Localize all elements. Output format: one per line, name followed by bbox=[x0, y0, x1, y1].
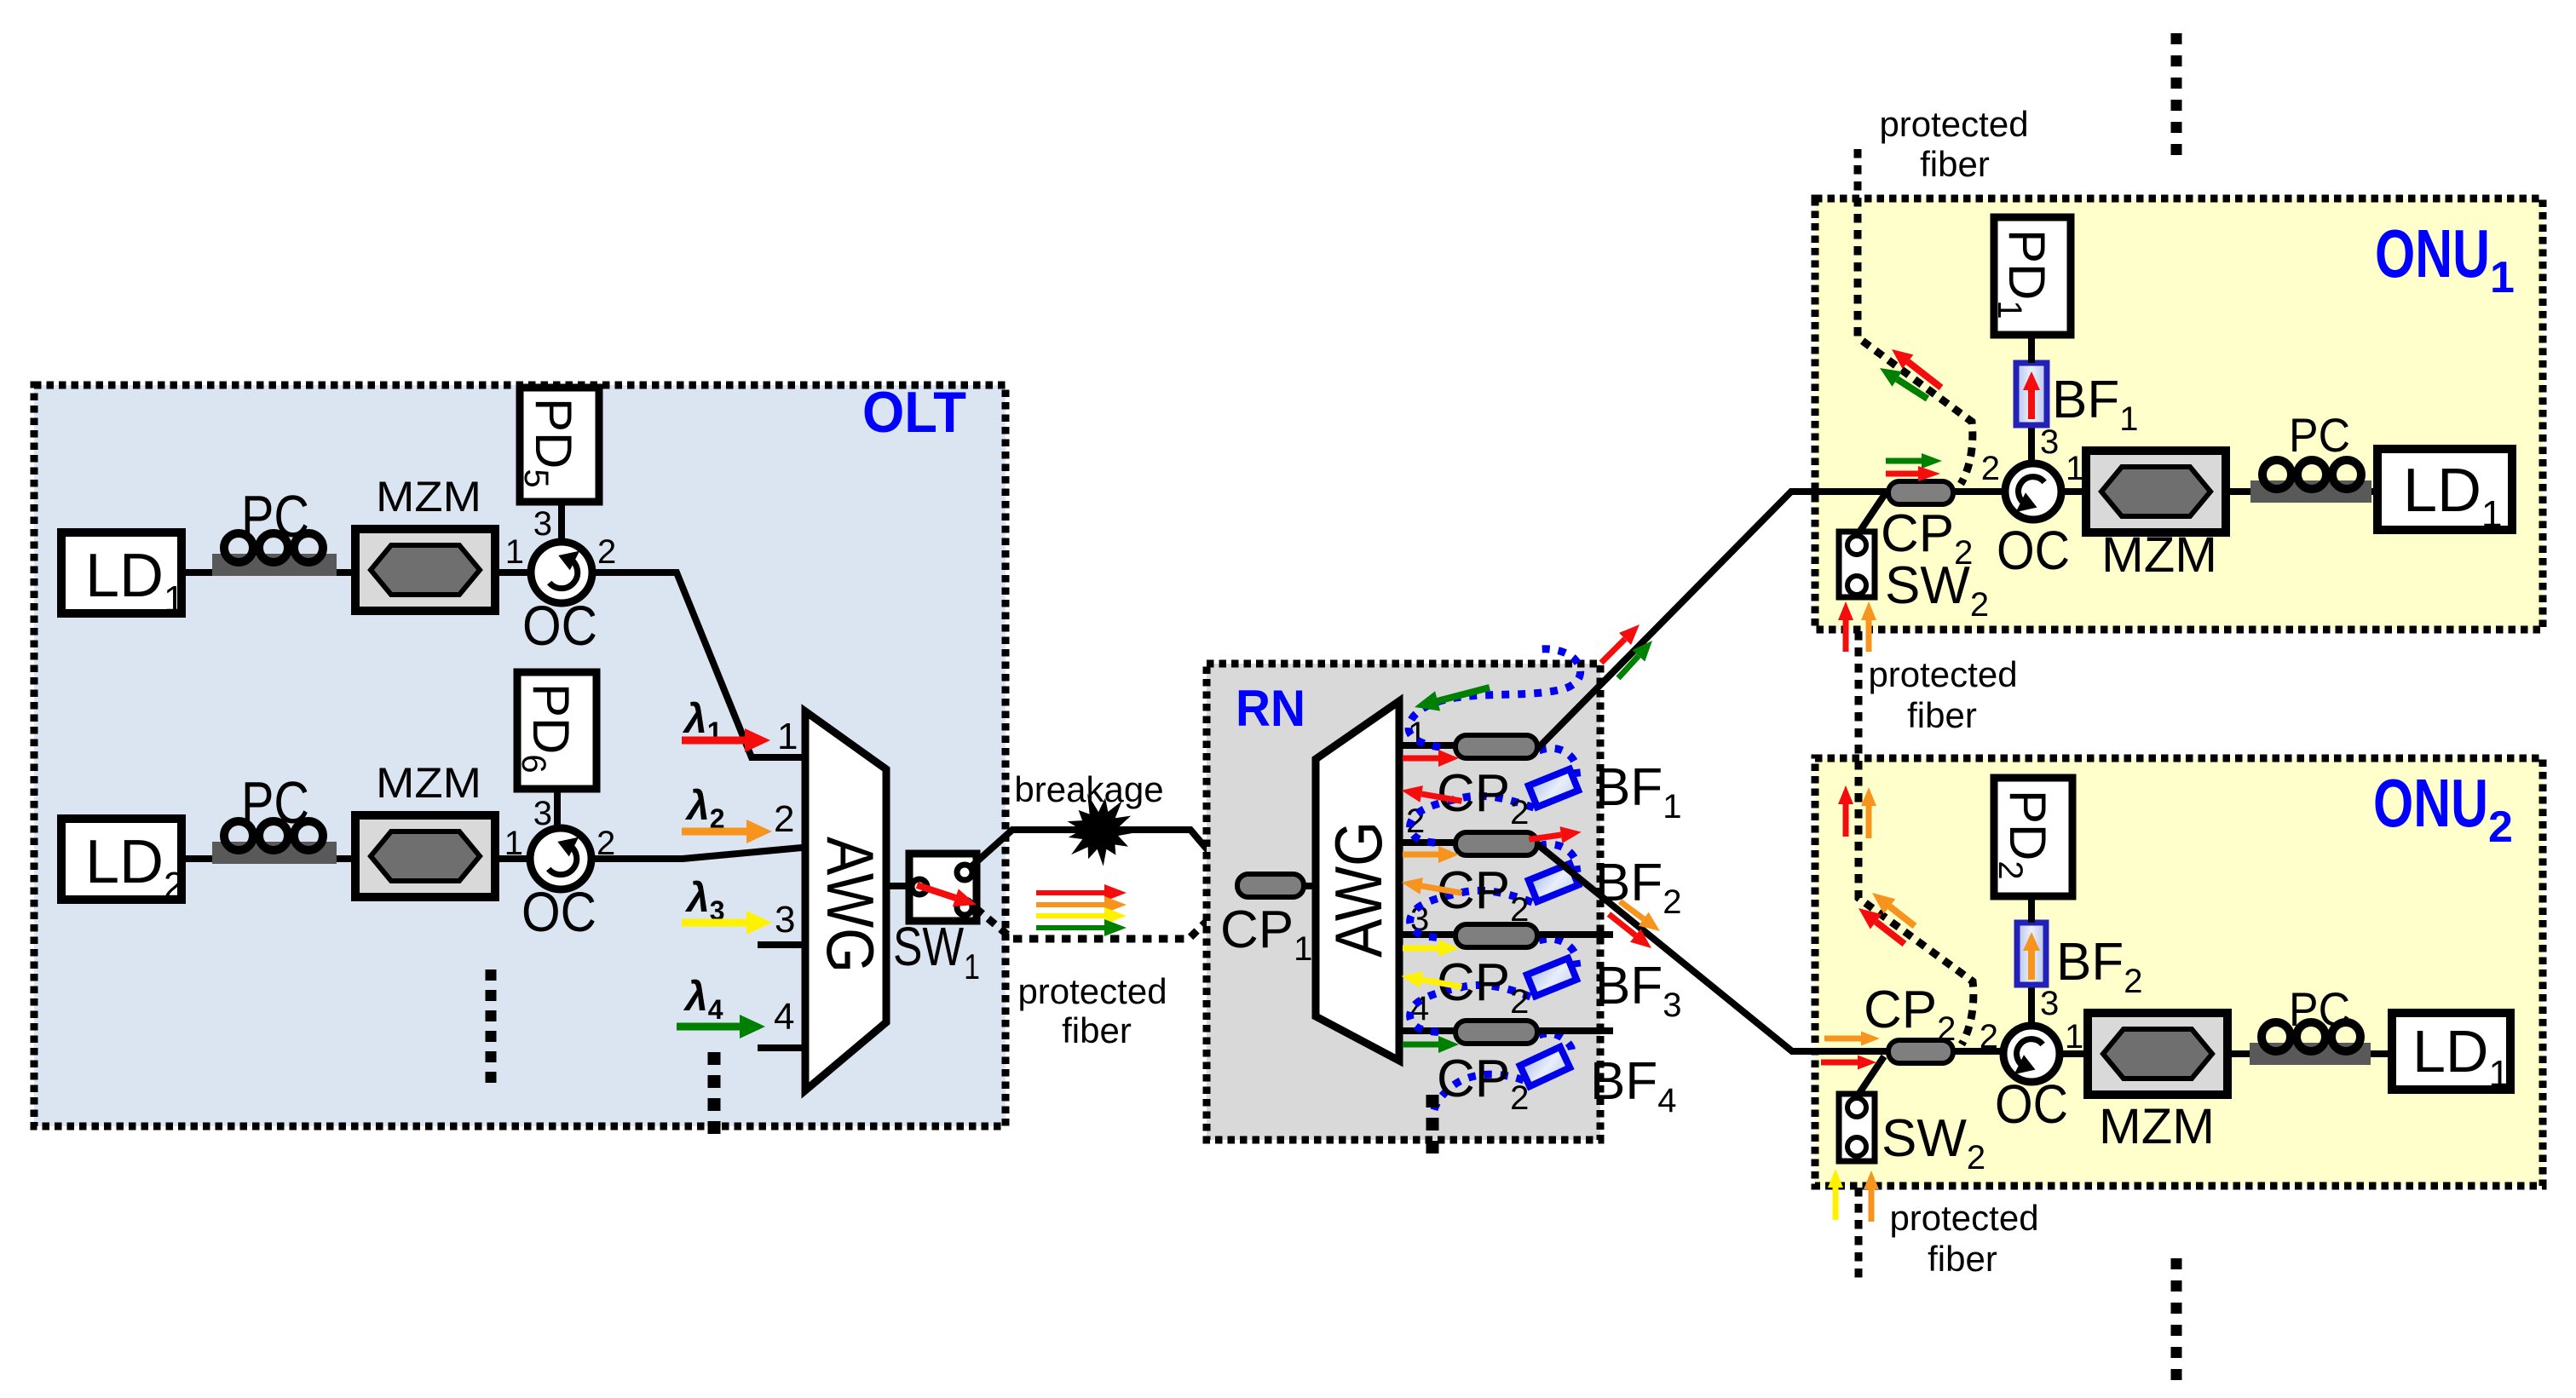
wire CP2 to SW2 (ONU1) bbox=[1859, 494, 1885, 533]
arrow green upstream into RN AWG bbox=[1415, 687, 1490, 711]
svg-text:MZM: MZM bbox=[376, 759, 481, 807]
wire OC to BF2 (ONU2) bbox=[2028, 985, 2035, 1026]
laser diode LD1 box (ONU2) bbox=[2392, 1013, 2510, 1090]
arrow red upstream on ONU1 protected fiber bbox=[1892, 349, 1941, 388]
wire CP2 to OC (ONU2) bbox=[1951, 1048, 2003, 1055]
svg-text:4: 4 bbox=[1410, 990, 1429, 1027]
wire MZM to OC (row 2) bbox=[495, 855, 531, 862]
wire RN port1 to ONU1 bbox=[1537, 492, 1890, 749]
wire OC row1 to AWG port 1 bbox=[592, 572, 802, 757]
ellipsis dots bottom right (more ONUs) bbox=[2171, 1258, 2182, 1380]
wire CP1 to RN AWG bbox=[1304, 883, 1316, 889]
arrow red downstream port1 bbox=[1403, 750, 1459, 767]
arrow green into ONU1 bbox=[1886, 453, 1942, 469]
blue filter BF2 box (RN) bbox=[1529, 864, 1578, 902]
wire feeder into CP2 (ONU2) bbox=[1792, 1048, 1888, 1055]
switch SW1 box bbox=[909, 854, 977, 921]
svg-text:RN: RN bbox=[1236, 680, 1305, 737]
wire OC to PD6 bbox=[554, 789, 561, 828]
svg-text:protected: protected bbox=[1868, 654, 2017, 694]
stub port 3 RN AWG bbox=[1399, 931, 1454, 938]
svg-text:PC: PC bbox=[2289, 982, 2350, 1036]
wire PC to LD1 (ONU2) bbox=[2371, 1050, 2394, 1057]
svg-text:protected: protected bbox=[1017, 971, 1167, 1011]
photodiode PD2 box (ONU2) bbox=[1994, 778, 2072, 896]
svg-text:fiber: fiber bbox=[1928, 1239, 1997, 1279]
svg-text:breakage: breakage bbox=[1014, 769, 1163, 809]
wire OC row2 to AWG port 2 bbox=[591, 848, 802, 859]
svg-text:fiber: fiber bbox=[1062, 1010, 1132, 1050]
optical circulator OC (row 2) bbox=[530, 828, 591, 889]
stub port 4 RN AWG bbox=[1399, 1027, 1454, 1034]
svg-text:PC: PC bbox=[2289, 408, 2350, 462]
arrow lambda4 green bbox=[677, 1015, 765, 1038]
svg-text:1: 1 bbox=[2066, 450, 2084, 487]
blue dotted fiber capsule2 to BF2 bbox=[1539, 844, 1577, 872]
blue filter BF2 (ONU2) bbox=[2017, 923, 2046, 985]
svg-text:OC: OC bbox=[1995, 1073, 2068, 1135]
wire CP2 to SW2 (ONU2) bbox=[1858, 1056, 1884, 1096]
stub port 1 RN AWG bbox=[1399, 742, 1454, 749]
svg-text:MZM: MZM bbox=[2101, 527, 2217, 583]
blue filter BF3 box (RN) bbox=[1527, 958, 1576, 997]
blue filter BF1 (ONU1) bbox=[2016, 363, 2047, 425]
arrow orange on protected fiber bbox=[1036, 896, 1127, 913]
svg-text:2: 2 bbox=[1981, 450, 2000, 487]
dotted protected fiber OLT to CP1 bbox=[976, 891, 1237, 939]
blue dotted fiber BF4 tail bbox=[1434, 1074, 1524, 1110]
wire BF1 to PD1 (ONU1) bbox=[2028, 335, 2035, 363]
wire OC to PD5 bbox=[558, 502, 565, 542]
wire PC to MZM (row 2) bbox=[337, 855, 358, 862]
svg-text:3: 3 bbox=[775, 899, 795, 941]
svg-text:OLT: OLT bbox=[862, 380, 966, 445]
arrow lambda2 orange bbox=[682, 820, 772, 843]
switch SW2 box (ONU1) bbox=[1839, 532, 1875, 597]
polarisation controller PC (row 2) bbox=[212, 821, 337, 864]
svg-text:fiber: fiber bbox=[1907, 695, 1977, 735]
svg-text:OC: OC bbox=[522, 880, 596, 943]
ellipsis dots top right (more ONUs) bbox=[2171, 33, 2182, 155]
wire OC to BF1 (ONU1) bbox=[2028, 425, 2035, 463]
coupler CP1 capsule bbox=[1237, 874, 1304, 897]
block OLT background bbox=[34, 385, 1006, 1126]
svg-text:AWG: AWG bbox=[1321, 821, 1396, 958]
wire RN port4 (future ONU) bbox=[1537, 1027, 1613, 1034]
stub port 4 OLT AWG bbox=[758, 1044, 802, 1051]
arrow orange up at ONU2 top bbox=[1861, 787, 1876, 838]
arrow yellow downstream port3 bbox=[1403, 940, 1459, 957]
svg-text:2: 2 bbox=[774, 798, 794, 840]
arrow orange upstream on ONU2 protected fiber bbox=[1872, 893, 1915, 926]
polarisation controller PC (ONU2) bbox=[2250, 1022, 2371, 1065]
svg-text:3: 3 bbox=[533, 505, 552, 543]
coupler CP2 capsule port 3 (RN) bbox=[1455, 924, 1537, 947]
wire LD1 to PC bbox=[182, 569, 214, 576]
arrow red upstream port1 bbox=[1400, 782, 1463, 809]
svg-text:1: 1 bbox=[2065, 1018, 2083, 1056]
arrow lambda1 red bbox=[682, 728, 770, 752]
blue filter BF1 box (RN) bbox=[1529, 769, 1578, 808]
wire MZM to PC (ONU1) bbox=[2226, 488, 2252, 495]
blue dotted fiber BF3 to port4 loop bbox=[1410, 985, 1530, 1033]
ellipsis dots OLT below AWG bbox=[708, 1052, 721, 1134]
blue dotted fiber capsule4 to BF4 bbox=[1539, 1033, 1573, 1058]
arrow orange up into SW2 (ONU1) bbox=[1861, 601, 1876, 652]
svg-text:MZM: MZM bbox=[2099, 1099, 2215, 1154]
arrow red into ONU2 bbox=[1821, 1056, 1876, 1070]
arrow green upstream on ONU1 protected fiber bbox=[1880, 368, 1928, 399]
laser diode LD1 box (ONU1) bbox=[2377, 449, 2512, 530]
photodiode PD1 box (ONU1) bbox=[1994, 217, 2071, 335]
svg-text:fiber: fiber bbox=[1920, 144, 1990, 184]
arrow red into ONU1 bbox=[1886, 466, 1940, 481]
svg-text:2: 2 bbox=[1980, 1018, 1998, 1056]
wire CP2 to OC (ONU1) bbox=[1953, 488, 2005, 495]
wire PC to MZM (row 1) bbox=[337, 569, 358, 576]
laser diode LD1 box bbox=[61, 532, 182, 613]
svg-text:PC: PC bbox=[241, 483, 309, 549]
modulator MZM (row 1) bbox=[355, 529, 495, 611]
wire OC to MZM (ONU2) bbox=[2060, 1050, 2089, 1057]
wire RN port3 (future ONU) bbox=[1537, 931, 1613, 938]
svg-text:OC: OC bbox=[1997, 520, 2070, 581]
stub port 3 OLT AWG bbox=[758, 941, 802, 948]
wire MZM to OC (row 1) bbox=[495, 569, 532, 576]
arrow yellow up into SW2 (ONU2) bbox=[1828, 1169, 1843, 1220]
svg-text:1: 1 bbox=[505, 533, 524, 571]
arrow red on ONU2 feeder bbox=[1609, 914, 1651, 948]
blue dotted fiber loop port1 to top arc bbox=[1409, 649, 1581, 747]
modulator MZM (ONU1) bbox=[2086, 451, 2226, 532]
wire SW1 to CP1 (working fiber) bbox=[971, 830, 1237, 885]
modulator MZM (ONU2) bbox=[2088, 1013, 2227, 1095]
arrow yellow on protected fiber bbox=[1036, 907, 1127, 924]
coupler CP2 capsule (ONU1) bbox=[1888, 481, 1953, 504]
arrow red downstream on ONU1 feeder bbox=[1601, 624, 1640, 663]
arrow red up at ONU2 top bbox=[1838, 785, 1853, 837]
photodiode PD6 box bbox=[517, 672, 596, 789]
optical circulator OC (ONU2) bbox=[2003, 1026, 2060, 1082]
dotted protected fiber into ONU1 bbox=[1858, 149, 1973, 484]
arrow orange upstream port2 bbox=[1400, 874, 1463, 901]
arrow orange up into SW2 (ONU2) bbox=[1864, 1171, 1879, 1222]
dotted protected fiber below ONU2 bbox=[1855, 1188, 1863, 1280]
blue dotted fiber BF2 to port3 loop bbox=[1410, 890, 1532, 938]
wire PC to LD1 (ONU1) bbox=[2371, 488, 2379, 495]
arrow lambda3 yellow bbox=[682, 911, 772, 935]
arrow yellow upstream port3 bbox=[1400, 968, 1463, 995]
blue dotted fiber capsule3 to BF3 bbox=[1539, 939, 1577, 967]
svg-text:MZM: MZM bbox=[376, 473, 481, 521]
arrow red up inside BF1 (ONU1) bbox=[2023, 371, 2040, 419]
optical circulator OC (row 1) bbox=[531, 542, 592, 603]
block ONU2 background bbox=[1815, 758, 2543, 1186]
arrow green on protected fiber bbox=[1036, 919, 1127, 936]
wire AWG to SW1 bbox=[886, 883, 909, 889]
arrow red on protected fiber bbox=[1036, 884, 1127, 901]
arrow red toward BF2 output bbox=[1528, 824, 1582, 848]
arrow orange downstream port2 bbox=[1403, 846, 1459, 863]
wire RN port2 to ONU2 bbox=[1537, 844, 1888, 1051]
svg-text:2: 2 bbox=[597, 533, 616, 571]
wire BF2 to PD2 (ONU2) bbox=[2028, 896, 2035, 923]
ellipsis dots OLT left bbox=[486, 969, 497, 1083]
svg-text:OC: OC bbox=[522, 594, 597, 657]
modulator MZM (row 2) bbox=[355, 815, 495, 897]
stub port 2 RN AWG bbox=[1399, 839, 1454, 846]
switch arm red arrow in SW1 bbox=[917, 885, 977, 906]
SW2 contact circles (ONU1) bbox=[1847, 536, 1866, 595]
ellipsis dots RN bottom bbox=[1426, 1095, 1439, 1153]
arrow green downstream port4 bbox=[1403, 1036, 1459, 1053]
AWG multiplexer (OLT) bbox=[805, 711, 886, 1090]
AWG demultiplexer (RN) bbox=[1316, 701, 1399, 1061]
coupler CP2 capsule port 4 (RN) bbox=[1455, 1021, 1537, 1044]
block RN background bbox=[1207, 664, 1600, 1140]
wire OC to MZM (ONU1) bbox=[2061, 488, 2088, 495]
polarisation controller PC (ONU1) bbox=[2250, 460, 2371, 503]
block ONU1 background bbox=[1815, 198, 2543, 630]
SW2 contact circles (ONU2) bbox=[1847, 1098, 1866, 1156]
coupler CP2 capsule port 2 (RN) bbox=[1455, 832, 1537, 855]
wire feeder into CP2 (ONU1) bbox=[1791, 488, 1890, 495]
svg-text:1: 1 bbox=[777, 716, 798, 757]
arrow orange downstream on ONU2 feeder bbox=[1620, 901, 1660, 931]
blue dotted fiber capsule1 to BF1 bbox=[1539, 748, 1577, 778]
dotted protected fiber into ONU2 bbox=[1859, 631, 1974, 1044]
breakage star bbox=[1068, 794, 1140, 866]
svg-text:AWG: AWG bbox=[813, 837, 888, 973]
blue filter BF4 box (RN) bbox=[1520, 1047, 1570, 1086]
polarisation controller PC (row 1) bbox=[212, 533, 337, 576]
switch SW2 box (ONU2) bbox=[1839, 1094, 1875, 1161]
arrow red upstream on ONU2 protected fiber bbox=[1859, 908, 1905, 944]
svg-text:PC: PC bbox=[241, 769, 309, 836]
arrow orange into ONU2 bbox=[1824, 1032, 1880, 1046]
arrow green upstream on ONU1 feeder bbox=[1618, 641, 1652, 678]
svg-text:protected: protected bbox=[1889, 1198, 2038, 1238]
svg-text:3: 3 bbox=[533, 795, 552, 832]
svg-text:1: 1 bbox=[504, 825, 523, 862]
optical circulator OC (ONU1) bbox=[2005, 463, 2061, 520]
coupler CP2 capsule port 1 (RN) bbox=[1455, 735, 1537, 758]
photodiode PD5 box bbox=[520, 388, 599, 502]
laser diode LD2 box bbox=[61, 819, 182, 900]
wire LD2 to PC bbox=[182, 855, 214, 862]
coupler CP2 capsule (ONU2) bbox=[1888, 1040, 1953, 1063]
SW1 contact circles bbox=[912, 865, 972, 915]
arrow red up into SW2 (ONU1) bbox=[1838, 601, 1853, 652]
svg-text:protected: protected bbox=[1879, 104, 2028, 144]
blue dotted fiber BF1 to port2 loop bbox=[1410, 796, 1534, 843]
wire MZM to PC (ONU2) bbox=[2227, 1050, 2251, 1057]
arrow orange up inside BF2 (ONU2) bbox=[2023, 932, 2040, 980]
svg-text:4: 4 bbox=[774, 996, 794, 1038]
